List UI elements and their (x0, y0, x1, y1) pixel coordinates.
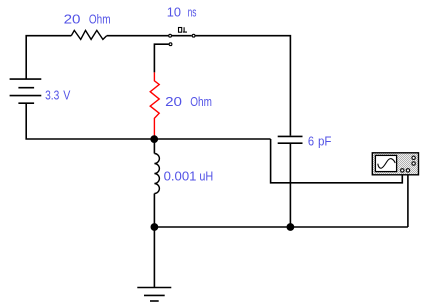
switch S1 label TD (rotated 180, drawn as paths) (179, 27, 188, 32)
inductor L1 0.001 uH (vertical coil) (154, 154, 159, 194)
wire: scope ground terminal down to bottom wire (407, 175, 409, 227)
label V1: 3.3 V (45, 87, 70, 102)
svg-text:0.001: 0.001 (164, 168, 197, 183)
svg-text:V: V (63, 87, 70, 102)
capacitor C1 plates (278, 135, 303, 137)
switch S1 closed contact wire (between contacts) (172, 35, 192, 37)
svg-text:uH: uH (199, 168, 213, 183)
svg-text:pF: pF (318, 133, 332, 148)
oscilloscope input terminals (401, 169, 404, 172)
label S1: 10 ns (167, 5, 197, 20)
resistor R1 20 Ohm (horizontal zigzag) (71, 30, 106, 39)
label R2: 20 Ohm (165, 94, 212, 109)
node B junction dot (151, 223, 159, 231)
wire: battery bottom down and right to node A (26, 103, 270, 139)
label C1: 6 pF (308, 133, 332, 148)
resistor R2 20 Ohm (vertical, selected red) (150, 72, 159, 139)
switch S1 lower throw wire (154, 44, 168, 72)
svg-text:Ohm: Ohm (190, 94, 212, 109)
wire: capacitor bottom to node C (289, 144, 291, 227)
label L1: 0.001 uH (164, 168, 214, 183)
switch S1 contact circles (169, 34, 172, 37)
svg-text:Ohm: Ohm (89, 11, 111, 26)
bottom wire: node B to scope input B drop (154, 226, 408, 228)
oscilloscope knobs (right side) (412, 156, 415, 159)
node C junction dot (287, 223, 295, 231)
node A junction dot (150, 135, 158, 143)
wire: switch to top-right corner, down to capacitor (196, 36, 291, 136)
wire: node A branch right, down, to scope input A (271, 139, 403, 183)
oscilloscope screen with sine trace (375, 155, 396, 171)
label R1: 20 Ohm (64, 11, 111, 26)
svg-text:3.3: 3.3 (45, 87, 59, 102)
oscilloscope U1 body (372, 153, 418, 175)
wire: R1 to switch pole (107, 35, 169, 37)
wire: battery top to resistor R1 (top-left corner) (26, 36, 71, 79)
battery V1 plates (10, 78, 42, 80)
svg-text:6: 6 (308, 133, 314, 148)
ground symbol (137, 287, 171, 289)
wire: inductor to bottom node B (153, 194, 155, 228)
wire: node A down to inductor (153, 139, 155, 154)
svg-text:ns: ns (188, 5, 197, 20)
svg-text:10: 10 (167, 5, 181, 20)
svg-text:20: 20 (64, 11, 81, 26)
wire: node B to ground (153, 227, 155, 288)
svg-text:20: 20 (165, 94, 182, 109)
